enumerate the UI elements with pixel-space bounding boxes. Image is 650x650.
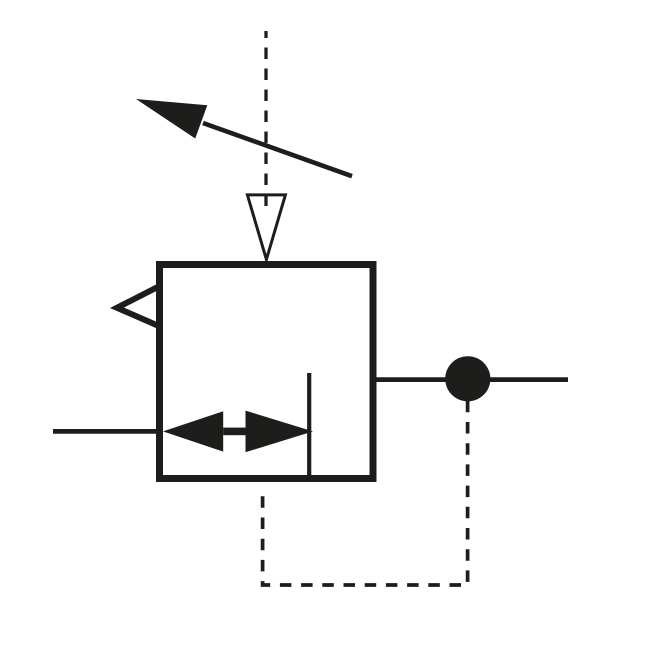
feedback pilot line (dashed: box bottom, down, right, up to node)	[263, 401, 468, 585]
flow double arrow (inside body)	[163, 411, 313, 453]
valve body (square box)	[160, 265, 374, 479]
spring adjustment triangle (hollow, pointing down)	[247, 195, 285, 260]
output port line (right)	[376, 377, 568, 382]
node (junction dot on output)	[445, 356, 490, 401]
vent/exhaust triangle (open, left side)	[117, 285, 161, 327]
pilot line (top dashed vertical)	[264, 31, 267, 206]
adjustment arrow (diagonal, pointing upper-left)	[136, 99, 352, 176]
input port line (left)	[53, 429, 163, 434]
valve seat line (internal vertical)	[307, 373, 311, 479]
